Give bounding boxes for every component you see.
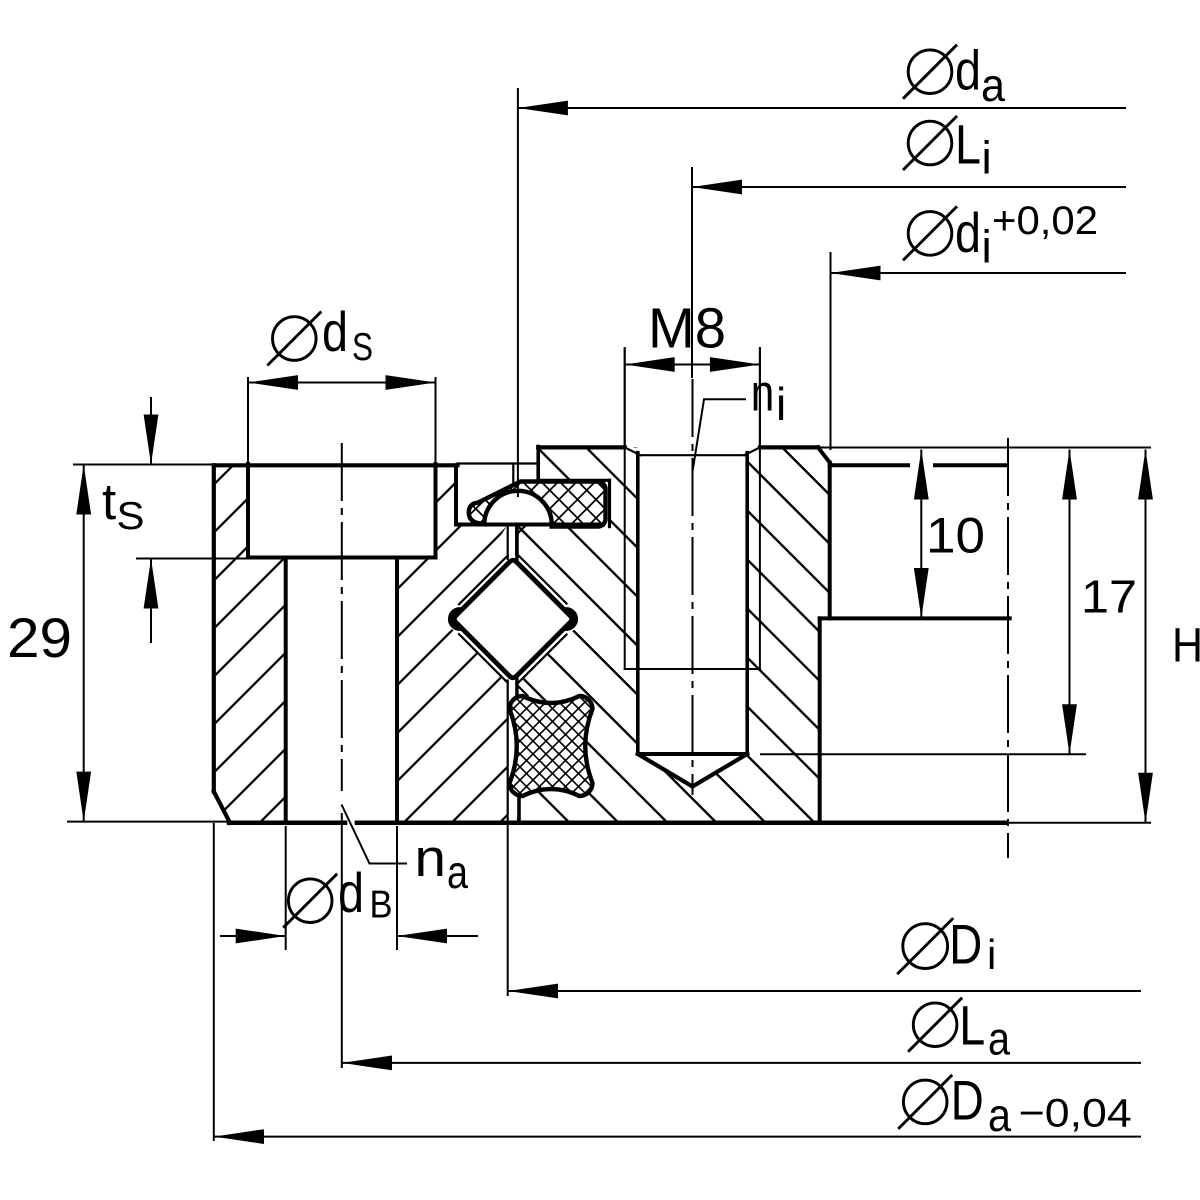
dim M8 line <box>625 364 760 366</box>
svg-text:d: d <box>955 201 981 264</box>
label diameter-symbol Li <box>903 116 957 170</box>
bottom surface right of leader gap <box>357 821 1006 826</box>
17 extension <box>760 753 1086 755</box>
bolt hole centerline <box>341 443 343 791</box>
right part centerline <box>1007 438 1009 858</box>
inner ring top surface right segment <box>760 445 818 449</box>
dim 29 line <box>83 465 85 822</box>
ni leader <box>693 399 747 471</box>
17 arrows <box>1062 450 1077 500</box>
dim tS lower <box>150 559 152 644</box>
outer ring top thin edge to gap <box>458 462 540 464</box>
dB arrows <box>236 929 286 944</box>
Li arrow <box>692 180 742 195</box>
dim tS upper <box>150 397 152 465</box>
Da extension <box>213 823 215 1141</box>
La arrow <box>342 1056 392 1071</box>
labyrinth thin edge <box>512 464 514 498</box>
recess surface <box>830 463 908 467</box>
svg-text:S: S <box>352 326 373 369</box>
svg-text:−0,04: −0,04 <box>1019 1092 1132 1136</box>
drill cone left <box>638 754 693 787</box>
thread major line right <box>759 348 761 669</box>
top chamfer left <box>625 447 641 455</box>
dim Li line <box>692 186 1126 188</box>
chamfer bottom edge <box>640 454 744 456</box>
svg-text:a: a <box>447 846 468 898</box>
bolt centerline extension for La <box>341 813 343 1068</box>
hole bottom <box>638 752 747 756</box>
label diameter-symbol dS <box>267 312 321 366</box>
label diameter-symbol Da -0,04 <box>898 1075 952 1129</box>
outer ring OD left edge <box>212 465 216 791</box>
outer ring bottom chamfer <box>214 792 230 823</box>
dim Da line <box>214 1136 1141 1138</box>
gap slot right line upper <box>515 525 518 561</box>
gap slot left line upper <box>507 525 509 559</box>
bolt hole <box>286 558 397 822</box>
dim dB line left <box>220 935 286 937</box>
svg-text:10: 10 <box>926 508 985 564</box>
counterbore right wall <box>434 464 438 558</box>
inner ring section (hatched) <box>517 447 830 822</box>
tS bottom extension <box>136 558 248 560</box>
svg-text:a: a <box>988 1012 1010 1064</box>
seal dome land <box>484 491 551 525</box>
bolt hole right wall <box>395 558 399 823</box>
svg-text:a: a <box>981 59 1005 111</box>
M8 hole centerline <box>692 379 694 795</box>
svg-text:i: i <box>982 131 992 183</box>
roller (crossed roller, square section) <box>454 560 572 678</box>
bore top chamfer <box>818 447 830 462</box>
cavity corner relief left <box>451 610 462 628</box>
cavity corner relief right <box>564 610 575 628</box>
seal groove ceiling <box>538 479 609 482</box>
outer ring section (hatched) <box>214 465 508 823</box>
svg-text:+0,02: +0,02 <box>992 199 1098 243</box>
svg-text:i: i <box>776 378 786 430</box>
M8 extension left <box>624 348 626 447</box>
svg-text:H: H <box>1172 620 1200 673</box>
bolt hole left wall <box>284 558 288 823</box>
gap slot right line lower <box>515 680 518 696</box>
svg-text:d: d <box>322 300 348 363</box>
svg-text:n: n <box>751 365 775 423</box>
dB extension right <box>396 826 398 950</box>
dim dS line <box>248 382 436 384</box>
svg-text:M8: M8 <box>648 296 726 360</box>
dim 10 line <box>920 450 922 619</box>
seal dome land arc <box>484 491 551 525</box>
Li extension <box>691 167 693 378</box>
Di arrow <box>508 984 558 999</box>
gap slot left line lower <box>507 681 509 823</box>
seal ring <box>469 482 606 527</box>
cavity upper-left flank <box>459 556 508 605</box>
10 arrows <box>914 450 929 500</box>
inner ring top surface left segment <box>538 445 625 449</box>
cavity lower-left flank <box>459 634 508 683</box>
na leader <box>342 805 408 864</box>
top thin edge right <box>818 447 1150 449</box>
inner face top chamfer <box>518 524 528 533</box>
svg-text:B: B <box>370 884 393 927</box>
bore step surface <box>820 616 1010 620</box>
spacer between rollers <box>510 696 593 796</box>
svg-text:i: i <box>982 221 992 273</box>
top chamfer right <box>744 447 760 455</box>
dS extension left <box>247 377 249 464</box>
cavity upper-right flank <box>517 554 567 604</box>
svg-text:17: 17 <box>1081 571 1137 623</box>
M8 extension right <box>759 348 761 447</box>
seal groove wall <box>608 480 611 526</box>
dim dB line right <box>397 935 478 937</box>
bottom surface thin extension right <box>1006 822 1150 824</box>
inner face below seal <box>515 527 519 554</box>
di arrow <box>831 266 881 281</box>
di extension <box>830 252 832 450</box>
bottom surface <box>229 821 345 826</box>
lower bore face <box>818 618 822 822</box>
M8 arrows <box>625 357 675 372</box>
dim La line <box>342 1062 1141 1064</box>
dim H line <box>1145 450 1147 823</box>
inner face below pocket <box>517 797 521 823</box>
dim da line <box>518 107 1126 109</box>
counterbore bottom <box>248 556 436 560</box>
label diameter-symbol di +0,02 <box>903 206 957 260</box>
svg-text:29: 29 <box>7 606 72 669</box>
M8 thread chamfer notch <box>625 448 760 456</box>
svg-text:d: d <box>338 861 364 924</box>
cavity lower-right flank <box>517 635 567 685</box>
svg-text:L: L <box>955 113 981 176</box>
hole minor line right <box>745 453 749 754</box>
svg-text:a: a <box>988 1089 1011 1141</box>
svg-text:D: D <box>949 913 982 976</box>
drill cone right <box>693 754 748 787</box>
thread major line left <box>624 348 626 669</box>
roller cavity with slots <box>447 525 579 696</box>
seal ledge redraw <box>456 523 603 527</box>
tS arrows <box>144 415 159 465</box>
label diameter-symbol dB <box>283 874 337 928</box>
dim Di line <box>508 990 1141 992</box>
hole minor line left <box>636 453 640 754</box>
thread depth line <box>625 668 760 670</box>
H arrows <box>1138 450 1153 500</box>
dS extension right <box>435 377 437 464</box>
svg-text:S: S <box>117 495 145 538</box>
seal ledge <box>456 523 603 527</box>
svg-text:t: t <box>102 473 116 530</box>
da extension <box>517 88 519 497</box>
inner face bottom chamfer <box>518 686 528 696</box>
bore face <box>828 463 832 619</box>
svg-text:n: n <box>415 829 447 888</box>
svg-text:D: D <box>951 1069 984 1132</box>
dB extension left <box>285 826 287 950</box>
recess surface right part <box>935 463 1005 467</box>
label diameter-symbol Di <box>897 918 953 974</box>
inner ring lip face <box>536 447 540 481</box>
tS top extension <box>73 464 214 466</box>
svg-text:d: d <box>955 38 981 101</box>
svg-text:L: L <box>959 994 985 1057</box>
label diameter-symbol da <box>903 45 957 99</box>
outer ring top surface <box>214 463 458 467</box>
dim 17 line <box>1069 450 1071 755</box>
seal pocket wall <box>454 465 458 524</box>
dS arrows <box>248 375 298 390</box>
29 arrows <box>76 465 91 515</box>
dim di line <box>831 272 1127 274</box>
Da arrow <box>214 1129 264 1144</box>
counterbore hole <box>248 466 436 558</box>
Di extension <box>507 823 509 996</box>
label diameter-symbol La <box>908 998 962 1052</box>
da arrow <box>518 101 568 116</box>
svg-text:i: i <box>987 931 996 978</box>
29 bottom extension <box>67 821 229 823</box>
counterbore left wall <box>246 464 250 558</box>
